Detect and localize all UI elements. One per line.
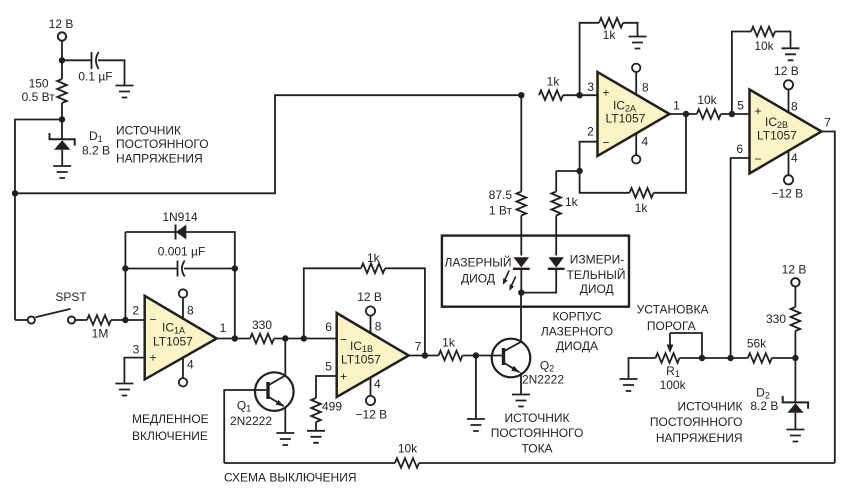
svg-text:8.2 В: 8.2 В [82, 144, 110, 158]
wire pin3 node up to 1k gnd [580, 23, 599, 95]
svg-text:ЛАЗЕРНЫЙ: ЛАЗЕРНЫЙ [445, 255, 512, 270]
laser diode case box [442, 236, 629, 307]
svg-text:LT1057: LT1057 [153, 335, 193, 349]
svg-text:ПОСТОЯННОГО: ПОСТОЯННОГО [650, 415, 743, 429]
svg-text:ПОСТОЯННОГО: ПОСТОЯННОГО [116, 137, 209, 151]
svg-text:87.5: 87.5 [489, 188, 513, 202]
svg-text:D1: D1 [89, 129, 103, 144]
svg-text:7: 7 [824, 116, 831, 130]
wire IC2B pin6 down [731, 158, 750, 358]
svg-text:10k: 10k [754, 39, 774, 53]
svg-text:0.001 µF: 0.001 µF [158, 245, 206, 259]
ground at IC1A pin3 [115, 384, 133, 396]
junction D1 node [59, 116, 65, 122]
laser light arrows [503, 271, 516, 291]
svg-text:−12 В: −12 В [771, 187, 803, 201]
wire 10k to ground IC2B top [775, 32, 791, 49]
svg-text:ПОРОГА: ПОРОГА [647, 319, 696, 333]
svg-text:ПОСТОЯННОГО: ПОСТОЯННОГО [491, 426, 584, 440]
svg-text:ИСТОЧНИК: ИСТОЧНИК [504, 411, 569, 425]
wire branch down to 1k [555, 171, 557, 192]
svg-text:5: 5 [737, 99, 744, 113]
junction pin6 at R1 row [727, 355, 733, 361]
svg-text:100k: 100k [660, 378, 687, 392]
op-amp IC1B LT1057 [325, 313, 408, 397]
svg-text:12 В: 12 В [774, 64, 799, 78]
node -12V IC2B pin4 [771, 151, 803, 201]
svg-text:ДИОДА: ДИОДА [556, 339, 598, 353]
wire IC2A output [670, 99, 697, 115]
svg-text:Q2: Q2 [540, 359, 554, 374]
svg-text:1k: 1k [367, 251, 381, 265]
wire Q2 collector [520, 293, 522, 342]
ground at 499 [307, 431, 325, 443]
node 12V IC2B pin8 [774, 64, 799, 113]
junction measure branch [576, 168, 582, 174]
resistor 10k IC2B to ground [751, 27, 775, 53]
transistor Q2 2N2222 [492, 339, 565, 387]
svg-text:3: 3 [587, 80, 594, 94]
wire feedback top row right [186, 232, 235, 339]
ground at Q1 emitter [276, 433, 294, 445]
wire IC2B output down [822, 116, 835, 464]
junction feedback cap left [122, 265, 128, 271]
wire C 0.1uF to ground [98, 60, 125, 85]
junction IC2A pin3 node [576, 92, 582, 98]
wire base node to ground [475, 356, 477, 420]
zener diode D1 8.2V [50, 129, 111, 166]
wire 1k feedback to output [654, 114, 687, 193]
svg-text:150: 150 [29, 77, 49, 91]
label current source [491, 411, 584, 455]
op-amp IC2B LT1057 [736, 90, 821, 174]
svg-text:−: − [754, 152, 761, 166]
svg-text:330: 330 [766, 312, 786, 326]
svg-text:ИСТОЧНИК: ИСТОЧНИК [677, 400, 742, 414]
svg-text:Q1: Q1 [237, 399, 251, 414]
wire 10k to IC2B pin5 [721, 113, 750, 115]
svg-text:−: − [149, 313, 156, 327]
svg-text:4: 4 [187, 357, 194, 371]
diode 1N914 [162, 210, 198, 240]
op-amp IC2A LT1057 [587, 72, 669, 156]
wire shutdown bottom right [419, 462, 835, 464]
wire 1k feedback to IC1B output [385, 268, 425, 355]
laser diode [445, 255, 530, 286]
svg-text:10k: 10k [398, 442, 418, 456]
wire Q1 collector [268, 339, 285, 386]
resistor 1M [87, 315, 111, 340]
junction IC1A pin2 node [122, 317, 128, 323]
wire 330 to IC1B pin6 [274, 338, 337, 340]
svg-text:УСТАНОВКА: УСТАНОВКА [637, 303, 709, 317]
ground at D1 [53, 166, 71, 178]
wire IC1B feedback up [304, 268, 361, 338]
svg-text:1M: 1M [92, 327, 109, 341]
svg-text:1N914: 1N914 [162, 210, 198, 224]
transistor Q1 2N2222 [230, 372, 294, 428]
junction feedback cap right [232, 265, 238, 271]
svg-text:6: 6 [325, 320, 332, 334]
svg-text:56k: 56k [747, 337, 767, 351]
svg-text:12 В: 12 В [357, 290, 382, 304]
svg-text:SPST: SPST [55, 290, 87, 304]
svg-text:0.1 µF: 0.1 µF [78, 70, 112, 84]
wire supply node to C 0.1uF [62, 59, 91, 61]
ground at Q2 base node [467, 419, 485, 431]
svg-text:R1: R1 [666, 364, 680, 379]
resistor 330 right [766, 307, 800, 331]
svg-text:КОРПУС: КОРПУС [552, 310, 601, 324]
label threshold set [637, 303, 709, 333]
label shutdown circuit [224, 471, 357, 485]
svg-text:6: 6 [736, 142, 743, 156]
resistor 1k measure diode [551, 192, 578, 216]
resistor 10k shutdown [395, 442, 419, 468]
svg-text:12 В: 12 В [782, 263, 807, 277]
resistor 330 [250, 318, 274, 343]
wire R1 left to ground [629, 358, 656, 379]
wire 12V terminal to R150 [61, 41, 63, 79]
resistor 1k IC2A input [539, 75, 563, 100]
svg-text:+: + [340, 369, 347, 383]
resistor 56k [747, 337, 772, 363]
svg-text:НАПРЯЖЕНИЯ: НАПРЯЖЕНИЯ [656, 431, 743, 445]
svg-text:499: 499 [322, 400, 342, 414]
svg-text:2: 2 [587, 125, 594, 139]
wire IC1A output [217, 321, 250, 339]
svg-text:1 Вт: 1 Вт [489, 204, 513, 218]
svg-text:−12 В: −12 В [355, 408, 387, 422]
svg-text:4: 4 [374, 377, 381, 391]
svg-text:МЕДЛЕННОЕ: МЕДЛЕННОЕ [132, 412, 209, 426]
wire 1k to measure diode [555, 216, 557, 256]
svg-text:2: 2 [132, 304, 139, 318]
wire IC2A pin2 [580, 142, 630, 193]
wire Q1 base [224, 390, 266, 463]
resistor 499 [311, 398, 342, 422]
junction Q2 base node [473, 352, 479, 358]
wire feed node down to R87.5 [520, 95, 522, 191]
svg-text:ТОКА: ТОКА [521, 441, 552, 455]
junction left rail [12, 190, 18, 196]
ground at D2 [786, 430, 804, 442]
wire 499 to ground [315, 422, 317, 431]
svg-text:8: 8 [375, 320, 382, 334]
svg-text:1k: 1k [603, 28, 617, 42]
wire D1 node to left rail [15, 120, 62, 321]
wire switch to 1M [75, 319, 87, 321]
wire Q1 emitter to ground [284, 407, 286, 433]
resistor 1k IC2A to ground [599, 18, 623, 42]
svg-text:−: − [340, 333, 347, 347]
wire IC1B pin5 [316, 376, 337, 398]
svg-text:+: + [754, 104, 761, 118]
node 12V right terminal [782, 263, 807, 308]
svg-text:7: 7 [415, 340, 422, 354]
wire 1M to IC1A pin2 [111, 319, 145, 321]
ground at IC2A top 1k [629, 37, 647, 49]
svg-text:8: 8 [791, 99, 798, 113]
resistor 87.5 1W [489, 188, 526, 218]
wire pin5 node up to 10k gnd [732, 32, 751, 115]
wire R1 to 56k [680, 357, 748, 359]
switch SPST [15, 290, 87, 324]
svg-text:LT1057: LT1057 [757, 129, 797, 143]
ground at 0.1uF [116, 86, 134, 98]
svg-text:8.2 В: 8.2 В [750, 399, 778, 413]
wire 1k to ground IC2A top [623, 23, 638, 37]
svg-text:4: 4 [791, 151, 798, 165]
pin 4 IC2A [632, 133, 648, 164]
pin 8 IC1A [179, 289, 194, 319]
svg-text:ДИОД: ДИОД [461, 272, 495, 286]
wire left rail to IC2A input (long top feed) [15, 95, 521, 193]
svg-text:1k: 1k [635, 201, 649, 215]
wire laser diode to junction [520, 269, 522, 293]
junction D2 node [792, 355, 798, 361]
resistor 1k IC2A feedback [630, 188, 654, 215]
junction top supply node [59, 57, 65, 63]
wire IC1B output [409, 340, 439, 356]
wire 1k to Q2 base [463, 355, 502, 357]
potentiometer R1 100k [656, 333, 703, 392]
svg-text:5: 5 [325, 360, 332, 374]
junction IC2A output [683, 111, 689, 117]
wire IC1A pin3 to ground [124, 358, 144, 384]
junction IC1B feedback node [301, 335, 307, 341]
zener diode D2 8.2V [750, 358, 808, 430]
pin 4 IC1A [179, 357, 194, 386]
label slow turn-on [132, 412, 209, 443]
wire 330 to D2 node [794, 331, 796, 358]
wire feedback top row left [125, 231, 174, 233]
capacitor 0.001uF [125, 245, 234, 277]
svg-text:12 В: 12 В [49, 17, 74, 31]
wire R87.5 to laser diode [520, 216, 522, 256]
svg-text:ДИОД: ДИОД [580, 282, 614, 296]
svg-text:0.5 Вт: 0.5 Вт [22, 90, 56, 104]
label laser diode case [541, 310, 613, 354]
ground at R1 [620, 379, 638, 391]
wire R150 to D1 [61, 103, 63, 139]
wire measure diode branch top [556, 170, 579, 172]
junction IC1A output feedback [232, 335, 238, 341]
wire measure diode to laser node [521, 269, 556, 293]
svg-text:2N2222: 2N2222 [522, 373, 564, 387]
op-amp IC1A LT1057 [132, 296, 216, 380]
resistor 150 0.5W [22, 77, 67, 105]
svg-text:LT1057: LT1057 [341, 353, 381, 367]
svg-text:+: + [149, 351, 156, 365]
node 12V IC1B pin8 [357, 290, 382, 334]
svg-text:ТЕЛЬНЫЙ: ТЕЛЬНЫЙ [567, 267, 626, 282]
svg-text:−: − [602, 136, 609, 150]
measuring diode [548, 253, 626, 296]
svg-text:8: 8 [187, 303, 194, 317]
wire pin2 node up to feedback rail [124, 232, 126, 320]
junction IC1B output [422, 352, 428, 358]
svg-text:1k: 1k [565, 195, 579, 209]
svg-text:330: 330 [252, 318, 272, 332]
svg-text:1k: 1k [442, 336, 456, 350]
junction Q1 collector node [282, 335, 288, 341]
wire 1k to IC2A pin3 [563, 94, 598, 96]
svg-text:10k: 10k [697, 93, 717, 107]
resistor 10k interstage [697, 93, 721, 119]
capacitor 0.1uF [78, 52, 112, 84]
wire shutdown bottom left [224, 462, 395, 464]
wire Q2 emitter to ground [520, 372, 522, 394]
svg-text:ЛАЗЕРНОГО: ЛАЗЕРНОГО [541, 324, 613, 338]
junction laser cathode node [518, 289, 524, 295]
label voltage source left [116, 124, 209, 166]
svg-text:1: 1 [673, 99, 680, 113]
svg-text:1: 1 [220, 321, 227, 335]
svg-text:НАПРЯЖЕНИЯ: НАПРЯЖЕНИЯ [116, 152, 203, 166]
svg-text:ИЗМЕРИ-: ИЗМЕРИ- [570, 253, 625, 267]
svg-text:3: 3 [133, 343, 140, 357]
resistor 1k IC1B feedback [361, 251, 385, 273]
node -12V IC1B pin4 [355, 377, 387, 422]
junction top feed node [518, 92, 524, 98]
junction R1 wiper node [699, 355, 705, 361]
ground at Q2 emitter [512, 395, 530, 407]
resistor 1k IC1B output [439, 336, 463, 361]
svg-text:+: + [602, 86, 609, 100]
junction IC2B pin5 node [729, 111, 735, 117]
svg-text:СХЕМА ВЫКЛЮЧЕНИЯ: СХЕМА ВЫКЛЮЧЕНИЯ [224, 471, 357, 485]
svg-text:LT1057: LT1057 [606, 112, 646, 126]
label voltage source right [650, 400, 743, 446]
ground at IC2B top 10k [782, 48, 800, 60]
wire 56k to D2 node [772, 357, 796, 359]
svg-text:2N2222: 2N2222 [230, 414, 272, 428]
svg-text:ВКЛЮЧЕНИЕ: ВКЛЮЧЕНИЕ [132, 429, 208, 443]
svg-text:ИСТОЧНИК: ИСТОЧНИК [116, 124, 181, 138]
svg-text:8: 8 [642, 80, 649, 94]
node 12V top-left terminal [49, 17, 74, 41]
svg-text:1k: 1k [547, 75, 561, 89]
svg-text:4: 4 [641, 135, 648, 149]
pin 8 IC2A [632, 64, 649, 95]
